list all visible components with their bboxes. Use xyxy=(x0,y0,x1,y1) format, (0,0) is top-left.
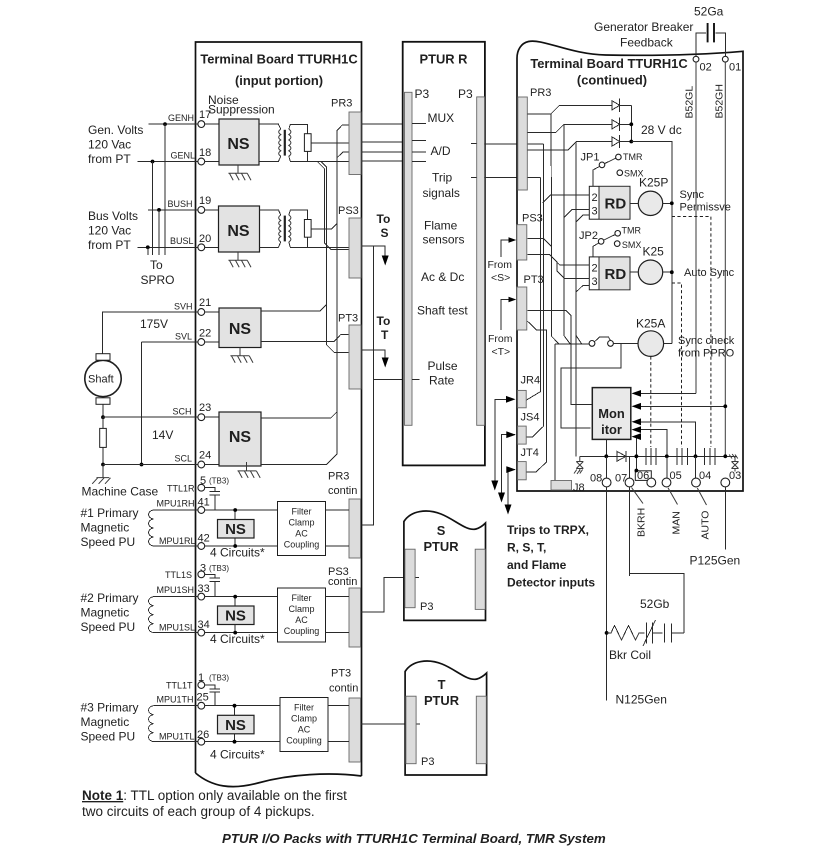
svg-text:Magnetic: Magnetic xyxy=(81,715,130,729)
svg-text:JP2: JP2 xyxy=(579,230,598,242)
noise suppression NS2 xyxy=(219,206,260,252)
diode output bus xyxy=(630,105,632,141)
svg-text:18: 18 xyxy=(199,147,211,159)
connector PS3 contin xyxy=(349,588,361,647)
contact K25P-a xyxy=(705,448,715,465)
node row/03 xyxy=(723,454,727,458)
svg-text:Speed PU: Speed PU xyxy=(81,535,136,549)
connector P3 (left, T PTUR) xyxy=(406,696,416,764)
svg-text:From: From xyxy=(488,333,513,345)
terminal TTL1T xyxy=(198,682,205,689)
svg-text:Clamp: Clamp xyxy=(291,714,317,724)
terminal 22 xyxy=(198,339,205,346)
svg-text:19: 19 xyxy=(199,195,211,207)
wires PTUR R to right board PR3 xyxy=(485,144,544,178)
svg-text:PS3: PS3 xyxy=(338,205,359,217)
ground under NS3 xyxy=(230,348,253,363)
terminal 07 xyxy=(625,478,634,487)
svg-text:Mon: Mon xyxy=(598,406,625,421)
svg-text:NS: NS xyxy=(225,521,246,538)
svg-text:25: 25 xyxy=(197,692,209,704)
svg-text:SPRO: SPRO xyxy=(141,273,175,287)
svg-text:JR4: JR4 xyxy=(521,375,541,387)
svg-text:Magnetic: Magnetic xyxy=(81,606,130,620)
node 52Gb branch xyxy=(605,631,609,635)
wire R3 to SCL row xyxy=(102,447,104,464)
wire PR3 to diode D2 xyxy=(527,124,612,132)
terminal 26 xyxy=(198,738,205,745)
resistor R3 xyxy=(100,428,107,447)
svg-text:#1 Primary: #1 Primary xyxy=(81,506,139,520)
svg-text:(TB3): (TB3) xyxy=(209,674,229,683)
wire B52GH tap into monitor arrow2 xyxy=(640,405,725,407)
wire To T with arrow xyxy=(362,350,386,358)
svg-text:two circuits of each group of: two circuits of each group of 4 pickups. xyxy=(82,804,315,819)
terminal 21 xyxy=(198,309,205,316)
svg-text:120 Vac: 120 Vac xyxy=(88,138,131,152)
svg-text:from PT: from PT xyxy=(88,152,131,166)
filter clamp AC coupling F2 xyxy=(278,588,326,642)
capacitor C1 TTL option xyxy=(205,488,220,510)
wire PR3 to diode D1 xyxy=(527,105,612,114)
terminal 01 xyxy=(722,56,728,62)
wire PT3 contin to T PTUR xyxy=(361,723,420,725)
wire SVH from shaft xyxy=(103,312,198,354)
node SVL-branch/SCL xyxy=(140,463,144,467)
wire MPU1RH xyxy=(154,509,278,511)
noise suppression NS1 xyxy=(219,119,259,165)
terminal stubs 08..03 xyxy=(606,456,695,478)
svg-text:24: 24 xyxy=(199,450,211,462)
wire 52Gb branch up to terminal 07 xyxy=(630,487,685,633)
wire 03 to P125Gen xyxy=(724,487,726,549)
pin stubs on right P3 xyxy=(471,143,477,177)
wire GENL input xyxy=(137,161,198,163)
svg-text:NS: NS xyxy=(229,429,252,446)
svg-text:SCL: SCL xyxy=(175,454,193,464)
svg-text:3: 3 xyxy=(592,276,598,288)
svg-text:K25P: K25P xyxy=(639,176,668,190)
connector P3 (right, S PTUR) xyxy=(475,549,485,609)
svg-text:To: To xyxy=(377,314,391,328)
capacitor C3 TTL option xyxy=(205,685,220,706)
terminal 06 xyxy=(647,478,656,487)
wire R2 tap up to PR3 bar xyxy=(311,125,349,229)
svg-text:NS: NS xyxy=(227,223,250,240)
wires F2 to PS3 contin xyxy=(326,597,350,633)
wire T2 low side to PS3 bar xyxy=(290,246,349,248)
wire B52GL xyxy=(695,62,697,393)
board: Terminal Board TTURH1C (continued) xyxy=(517,41,743,491)
svg-text:PT3: PT3 xyxy=(338,313,358,325)
wire From T arrow into PT3 xyxy=(501,300,509,331)
switch S1 (sync check) xyxy=(555,343,589,345)
svg-text:MPU1TH: MPU1TH xyxy=(157,695,194,705)
svg-text:J8: J8 xyxy=(573,482,585,494)
shaft sensor M1 xyxy=(85,360,121,396)
terminal 19 xyxy=(198,207,205,214)
svg-text:S: S xyxy=(437,523,446,538)
wire switch branch to monitor input B xyxy=(561,344,621,429)
wire 06 riser into monitor arrow5 xyxy=(636,437,640,471)
svg-text:23: 23 xyxy=(199,402,211,414)
node on BUSL xyxy=(146,245,150,249)
svg-text:Clamp: Clamp xyxy=(288,604,314,614)
svg-text:TTL1R: TTL1R xyxy=(167,484,195,494)
capacitor 52Ga xyxy=(696,33,725,56)
bus v5 diode2 elbow down xyxy=(564,124,570,344)
svg-text:P3: P3 xyxy=(415,87,430,101)
wires to RD2 pins xyxy=(527,238,589,292)
svg-text:Shaft test: Shaft test xyxy=(417,304,468,318)
wire BUSH input xyxy=(148,209,198,211)
connector J8 xyxy=(551,481,572,491)
terminal 05 xyxy=(662,478,671,487)
svg-text:Auto Sync: Auto Sync xyxy=(684,267,735,279)
wire JP1 to RD1 xyxy=(593,167,600,187)
jumper JP2 xyxy=(598,239,604,245)
ground machine case xyxy=(92,478,110,484)
node row/monitor xyxy=(604,454,608,458)
wire SCH xyxy=(103,416,198,418)
svg-text:RD: RD xyxy=(605,196,627,213)
suppressor MOV1 (left end of row) xyxy=(574,456,583,474)
node shaft/SCH xyxy=(101,415,105,419)
svg-text:MPU1RL: MPU1RL xyxy=(159,536,196,546)
svg-text:(input portion): (input portion) xyxy=(235,73,323,88)
svg-text:AUTO: AUTO xyxy=(700,511,712,540)
svg-text:P3: P3 xyxy=(458,87,473,101)
svg-text:03: 03 xyxy=(729,470,741,482)
I/O pack T PTUR box xyxy=(405,661,487,775)
svg-text:14V: 14V xyxy=(152,428,173,442)
svg-text:Sync: Sync xyxy=(680,189,705,201)
svg-text:52Ga: 52Ga xyxy=(694,5,724,19)
svg-text:SVL: SVL xyxy=(175,331,192,341)
node row/05 xyxy=(665,454,669,458)
svg-text:Permissve: Permissve xyxy=(680,202,731,214)
contact K25A-a xyxy=(646,448,656,465)
wire From S arrow into PS3 xyxy=(501,240,509,257)
transformer T2 xyxy=(279,215,281,242)
svg-text:Bkr Coil: Bkr Coil xyxy=(609,648,651,662)
svg-text:from PT: from PT xyxy=(88,238,131,252)
dashed link K25A to contact xyxy=(650,356,652,447)
svg-text:PTUR: PTUR xyxy=(423,539,459,554)
terminal 42 xyxy=(198,543,205,550)
bus wire B down to PT3 bar xyxy=(321,161,349,352)
diode D3 xyxy=(612,135,631,148)
svg-text:P125Gen: P125Gen xyxy=(690,554,741,568)
terminal 23 xyxy=(198,414,205,421)
wires T1 secondary to resistor R1 xyxy=(289,124,308,161)
svg-text:Trip: Trip xyxy=(432,171,453,185)
connector PT3 contin xyxy=(349,698,361,762)
svg-text:Detector inputs: Detector inputs xyxy=(507,576,595,590)
wire MPU1SL xyxy=(154,632,278,634)
wire NS3 bottom out to PT3 bar xyxy=(261,334,349,341)
jumper JP1 xyxy=(599,162,605,168)
svg-text:K25: K25 xyxy=(643,245,665,259)
svg-text:R, S, T,: R, S, T, xyxy=(507,541,546,555)
wires F1 to PR3 contin xyxy=(326,510,350,546)
wires 21/22 to NS3 xyxy=(205,312,219,342)
node R3/SCL xyxy=(101,463,105,467)
leader 07 to BKRH xyxy=(632,488,644,504)
svg-text:28 V dc: 28 V dc xyxy=(641,123,682,137)
svg-text:from PPRO: from PPRO xyxy=(678,348,735,360)
relay driver RD2 xyxy=(589,257,630,290)
svg-text:04: 04 xyxy=(699,470,711,482)
svg-text:B52GH: B52GH xyxy=(714,84,726,118)
wire SVL down to SCL row xyxy=(141,342,143,465)
svg-text:S: S xyxy=(381,226,389,240)
connector PR3 contin xyxy=(349,499,361,558)
terminal 03 xyxy=(721,478,730,487)
svg-text:05: 05 xyxy=(670,470,682,482)
svg-text:Trips to TRPX,: Trips to TRPX, xyxy=(507,523,589,537)
svg-text:PTUR: PTUR xyxy=(424,693,460,708)
terminal 08 xyxy=(602,478,611,487)
pin stubs on left P3 xyxy=(412,123,426,379)
pickup coil L2 xyxy=(149,597,154,633)
wire to resistor R3 xyxy=(102,417,104,428)
svg-text:Shaft: Shaft xyxy=(88,374,114,386)
svg-text:06: 06 xyxy=(637,470,649,482)
wires PR3 bar to PTUR R P3 xyxy=(362,124,404,161)
connector PS3 (right board) xyxy=(517,225,527,260)
relay driver RD1 xyxy=(589,186,630,219)
svg-text:T: T xyxy=(438,677,446,692)
wires NS2 to transformer T2 xyxy=(260,210,281,247)
wire PT3 to monitor input A xyxy=(527,311,592,405)
svg-text:Clamp: Clamp xyxy=(288,518,314,528)
svg-text:22: 22 xyxy=(199,328,211,340)
relay K25 xyxy=(638,260,662,284)
wires to SPRO xyxy=(148,124,165,255)
connector P3 (left, S PTUR) xyxy=(405,549,415,608)
wire GENH input xyxy=(149,123,198,125)
suppressor MOV2 (right end of row) xyxy=(729,454,738,472)
bus v1 PR3 to JR4 xyxy=(526,178,540,401)
svg-text:AC: AC xyxy=(295,615,308,625)
terminal 24 xyxy=(198,461,205,468)
wire J8 riser xyxy=(554,344,556,480)
svg-text:MUX: MUX xyxy=(428,111,455,125)
svg-text:Machine Case: Machine Case xyxy=(82,485,159,499)
wire PS3 contin to S PTUR xyxy=(361,578,419,612)
svg-text:01: 01 xyxy=(729,62,741,74)
terminal 04 xyxy=(692,478,701,487)
terminal 41 xyxy=(198,507,205,514)
wire MPU1SH xyxy=(154,596,278,598)
wire row tap into monitor arrow3 xyxy=(640,422,696,457)
wire row tap into monitor arrow4 xyxy=(640,430,667,457)
svg-text:#2 Primary: #2 Primary xyxy=(81,591,139,605)
capacitor 52Gb2 xyxy=(665,624,684,643)
svg-text:02: 02 xyxy=(700,62,712,74)
svg-text:TMR: TMR xyxy=(622,226,642,236)
svg-text:Filter: Filter xyxy=(294,703,314,713)
svg-text:P3: P3 xyxy=(421,756,434,768)
wires to RD1 pins xyxy=(543,195,590,222)
connector P3 (right, PTUR R) xyxy=(477,97,485,425)
svg-text:Note 1: TTL option only avail: Note 1: TTL option only available on the… xyxy=(82,788,347,803)
wires NS1 to transformer T1 xyxy=(259,124,281,161)
terminal TTL1S xyxy=(198,571,205,578)
svg-text:SMX: SMX xyxy=(622,240,642,250)
svg-text:Rate: Rate xyxy=(429,374,455,388)
svg-text:B52GL: B52GL xyxy=(684,86,696,119)
svg-text:Speed PU: Speed PU xyxy=(81,620,136,634)
monitor box xyxy=(592,388,631,440)
svg-text:<T>: <T> xyxy=(492,346,511,358)
svg-text:3: 3 xyxy=(592,206,598,218)
svg-text:JP1: JP1 xyxy=(581,152,600,164)
svg-text:TTL1T: TTL1T xyxy=(166,681,193,691)
diode D1 xyxy=(612,99,631,112)
wires terminals 17/18 to NS1 xyxy=(205,124,219,161)
svg-text:Suppression: Suppression xyxy=(208,103,275,117)
connector PS3 (left board) xyxy=(349,218,361,278)
connector JT4 xyxy=(518,462,527,480)
connector P3 (right, T PTUR) xyxy=(476,696,486,764)
diode D4 on row xyxy=(617,451,626,462)
svg-text:contin: contin xyxy=(328,576,357,588)
noise suppression NS3 xyxy=(219,308,261,348)
svg-text:PR3: PR3 xyxy=(530,87,551,99)
node on GENL xyxy=(151,160,155,164)
terminal TTL1R xyxy=(198,484,205,491)
svg-text:P3: P3 xyxy=(420,601,433,613)
svg-text:PR3: PR3 xyxy=(328,471,349,483)
svg-text:Ac & Dc: Ac & Dc xyxy=(421,270,464,284)
svg-text:<S>: <S> xyxy=(491,272,510,284)
connector PR3 (left board) xyxy=(349,112,361,175)
connector PT3 (right board) xyxy=(517,287,527,330)
capacitor 52Gb (slashed) xyxy=(643,620,663,646)
svg-text:(continued): (continued) xyxy=(577,73,647,88)
svg-text:MPU1SL: MPU1SL xyxy=(159,623,195,633)
terminal 18 xyxy=(198,158,205,165)
svg-text:Coupling: Coupling xyxy=(286,736,322,746)
svg-text:itor: itor xyxy=(601,422,622,437)
svg-text:Sync check: Sync check xyxy=(678,335,735,347)
pickup coil L3 xyxy=(149,706,154,742)
dashed link K25P to contact xyxy=(672,217,711,448)
capacitor C2 TTL option xyxy=(205,574,220,596)
terminal 19/20 wires to NS2 xyxy=(205,210,219,247)
wire R1 tap to PR3 bar xyxy=(311,142,349,144)
wire trip JR4 with arrows xyxy=(495,399,508,481)
filter clamp AC coupling F1 xyxy=(278,502,326,556)
svg-text:MPU1TL: MPU1TL xyxy=(159,732,195,742)
svg-text:SCH: SCH xyxy=(173,406,192,416)
bus v4 diode1 elbow down to switch feed xyxy=(551,114,559,344)
svg-text:Bus Volts: Bus Volts xyxy=(88,209,138,223)
bus v6 diode3 elbow down to contact row xyxy=(576,142,582,457)
filter clamp AC coupling F3 xyxy=(280,698,328,752)
wire shaft to SCH row xyxy=(102,404,104,417)
relay K25A xyxy=(638,331,664,357)
svg-text:52Gb: 52Gb xyxy=(640,597,670,611)
svg-text:#3 Primary: #3 Primary xyxy=(81,701,139,715)
svg-text:Magnetic: Magnetic xyxy=(81,521,130,535)
connector PT3 (left board) xyxy=(349,325,361,389)
svg-text:MPU1SH: MPU1SH xyxy=(157,585,195,595)
svg-text:07: 07 xyxy=(615,473,627,485)
wire BUSL input xyxy=(137,246,198,248)
wire 08 to N125Gen xyxy=(606,487,608,701)
wire To S with arrow xyxy=(362,246,386,256)
connector JR4 xyxy=(518,390,527,407)
relay K25P xyxy=(638,191,662,215)
svg-text:JT4: JT4 xyxy=(521,447,539,459)
wire NS4 top out up to PT3 bar xyxy=(261,152,349,465)
wire trip JT4 with arrows xyxy=(508,470,515,505)
connector PR3 (right board) xyxy=(518,97,528,190)
wires F3 to PT3 contin xyxy=(328,706,349,742)
svg-text:2: 2 xyxy=(592,263,598,275)
contact K25-a xyxy=(677,448,687,465)
terminal 17 xyxy=(198,121,205,128)
resistor R1 xyxy=(304,134,311,152)
leader 05 to MAN xyxy=(668,488,678,505)
wires T2 secondary to resistor R2 xyxy=(289,210,308,247)
svg-text:(TB3): (TB3) xyxy=(209,477,229,486)
svg-text:SVH: SVH xyxy=(174,301,193,311)
node row/04 xyxy=(694,454,698,458)
svg-text:GENL: GENL xyxy=(171,151,196,161)
wire MPU1TL xyxy=(154,741,281,743)
svg-text:T: T xyxy=(381,328,389,342)
svg-text:08: 08 xyxy=(590,473,602,485)
diode D2 xyxy=(612,118,631,131)
svg-text:AC: AC xyxy=(295,529,308,539)
svg-text:NS: NS xyxy=(225,717,246,734)
svg-text:To: To xyxy=(150,258,163,272)
noise suppression NS4 xyxy=(219,412,261,466)
wire SCL xyxy=(103,464,198,466)
pickup coil L1 xyxy=(149,510,154,546)
svg-text:21: 21 xyxy=(199,297,211,309)
svg-text:AC: AC xyxy=(298,725,311,735)
svg-text:TTL1S: TTL1S xyxy=(165,570,192,580)
board: Terminal Board TTURH1C (input portion) xyxy=(196,42,362,787)
dashed link K25 to contact xyxy=(672,283,682,447)
svg-text:TMR: TMR xyxy=(623,152,643,162)
wire to machine case ground xyxy=(102,465,104,478)
box around label 06 xyxy=(635,471,651,481)
svg-text:contin: contin xyxy=(328,485,357,497)
svg-text:GENH: GENH xyxy=(168,113,194,123)
svg-text:Pulse: Pulse xyxy=(428,359,458,373)
svg-text:Gen. Volts: Gen. Volts xyxy=(88,123,143,137)
svg-text:N125Gen: N125Gen xyxy=(616,693,667,707)
resistor R2 xyxy=(304,220,311,238)
svg-text:NS: NS xyxy=(229,321,252,338)
I/O pack PTUR R box xyxy=(403,42,485,466)
terminal 34 xyxy=(198,629,205,636)
node on GENH xyxy=(163,122,167,126)
wire MPU1TH xyxy=(154,705,281,707)
svg-text:2: 2 xyxy=(592,192,598,204)
I/O pack S PTUR box xyxy=(404,511,486,620)
wire PR3 to diode D3 xyxy=(527,142,612,151)
svg-text:Coupling: Coupling xyxy=(284,540,320,550)
svg-text:MAN: MAN xyxy=(671,511,683,534)
svg-text:and Flame: and Flame xyxy=(507,558,567,572)
